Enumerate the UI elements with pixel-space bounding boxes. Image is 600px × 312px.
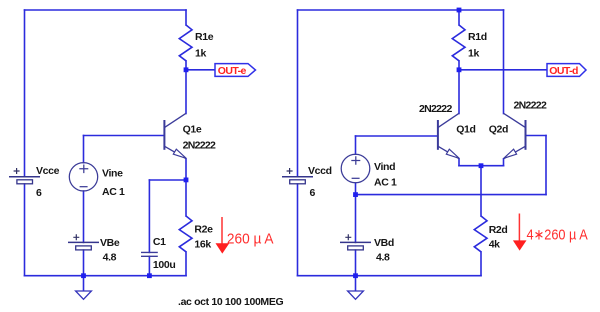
svg-text:2N2222: 2N2222 [183,140,216,152]
svg-text:Vine: Vine [102,168,123,180]
svg-text:Q1e: Q1e [183,123,202,135]
svg-text:4∗260 µ A: 4∗260 µ A [527,226,588,243]
svg-text:16k: 16k [194,238,211,250]
svg-text:1k: 1k [195,47,206,59]
svg-text:2N2222: 2N2222 [514,99,547,111]
svg-text:AC 1: AC 1 [102,186,125,198]
svg-text:Vcce: Vcce [36,165,60,177]
svg-text:2N2222: 2N2222 [419,103,452,115]
svg-text:OUT-e: OUT-e [218,65,247,77]
svg-text:R1e: R1e [195,31,214,43]
svg-text:6: 6 [310,187,316,199]
svg-text:4.8: 4.8 [376,251,390,263]
svg-text:VBe: VBe [100,237,120,249]
svg-text:AC 1: AC 1 [374,176,397,188]
svg-text:6: 6 [36,187,42,199]
svg-text:C1: C1 [153,236,166,248]
svg-text:R1d: R1d [468,31,487,43]
svg-text:Q1d: Q1d [456,123,475,135]
svg-text:260 µ A: 260 µ A [227,230,274,247]
svg-text:Q2d: Q2d [489,123,508,135]
svg-text:VBd: VBd [374,237,394,249]
svg-text:100u: 100u [153,259,176,271]
svg-text:.ac oct 10 100 100MEG: .ac oct 10 100 100MEG [178,296,283,308]
svg-text:Vind: Vind [374,161,395,173]
svg-text:4k: 4k [489,238,500,250]
svg-text:R2d: R2d [489,224,508,236]
svg-text:R2e: R2e [194,224,213,236]
svg-text:4.8: 4.8 [103,251,117,263]
svg-text:1k: 1k [468,47,479,59]
svg-text:Vccd: Vccd [308,165,332,177]
svg-text:OUT-d: OUT-d [549,65,578,77]
